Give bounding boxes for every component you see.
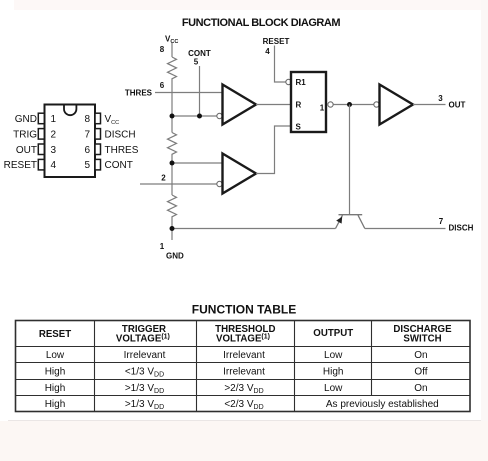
- table row 4: High / >1/3 VDD / <2/3 VDD / As previously established: [45, 399, 439, 411]
- table header row: [39, 324, 452, 345]
- svg-text:On: On: [414, 350, 427, 361]
- latch R1 input bubble: [286, 79, 291, 84]
- svg-text:FUNCTION TABLE: FUNCTION TABLE: [192, 303, 296, 317]
- svg-text:RESET: RESET: [4, 160, 37, 171]
- wire: base drive down to transistor Q1: [349, 105, 351, 215]
- pin 4 (RESET): [38, 159, 44, 170]
- pin numbers inside DIP: [51, 114, 91, 171]
- wire: 1/3 VDD tap to comparator 2 + input: [172, 162, 223, 164]
- pin 3 (OUT): [38, 144, 44, 155]
- svg-text:As previously established: As previously established: [326, 399, 439, 410]
- latch output bubble: [328, 102, 333, 107]
- junction node: CONT on 2/3 tap: [197, 114, 202, 119]
- svg-text:1: 1: [51, 114, 57, 125]
- svg-text:8: 8: [84, 114, 90, 125]
- svg-text:High: High: [323, 367, 344, 378]
- transistor Q1 emitter arrow: [336, 217, 342, 224]
- output buffer U3 (inverter): [380, 85, 414, 125]
- wire: VCC rail x=172: [168, 43, 177, 240]
- IC package U1 (8-pin DIP): [45, 105, 96, 178]
- resistor R middle: [168, 133, 177, 156]
- transistor Q1 (discharge): [336, 215, 365, 229]
- wire: CONT line down to 2/3 node: [199, 66, 201, 116]
- pin 8 (VCC): [95, 113, 101, 124]
- svg-text:3: 3: [51, 145, 57, 156]
- resistor R top (VCC to 2/3 tap): [168, 57, 177, 80]
- table row 1: Low / Irrelevant / Irrelevant / Low / On: [46, 350, 428, 361]
- svg-text:High: High: [45, 399, 66, 410]
- svg-text:1: 1: [320, 103, 325, 112]
- svg-text:DISCH: DISCH: [105, 129, 136, 140]
- svg-text:7: 7: [84, 129, 90, 140]
- wire: RESET line to latch R1 bubble: [275, 46, 286, 83]
- svg-text:5: 5: [194, 58, 199, 67]
- pin 2 (TRIG): [38, 129, 44, 140]
- svg-text:CONT: CONT: [105, 160, 133, 171]
- DIP right pin labels: [105, 114, 139, 171]
- svg-text:2: 2: [161, 174, 166, 183]
- resistor R bottom: [168, 195, 177, 218]
- svg-text:6: 6: [160, 81, 165, 90]
- comparator 2 (trigger): [223, 154, 257, 194]
- DIP left pin labels: [4, 114, 38, 171]
- svg-text:FUNCTIONAL BLOCK DIAGRAM: FUNCTIONAL BLOCK DIAGRAM: [182, 17, 341, 29]
- svg-text:R: R: [296, 101, 302, 110]
- svg-text:High: High: [45, 367, 66, 378]
- svg-text:OUT: OUT: [16, 145, 37, 156]
- svg-text:Low: Low: [324, 350, 343, 361]
- wire: 2/3 VDD tap to comparator 1 - input: [172, 115, 217, 117]
- pin 7 (DISCH): [95, 129, 101, 140]
- junction node: rail / 2/3 tap: [170, 114, 175, 119]
- svg-text:8: 8: [160, 45, 165, 54]
- pin 5 (CONT): [95, 159, 101, 170]
- wire: collector to DISCH pin 7: [365, 228, 446, 230]
- svg-text:4: 4: [265, 47, 270, 56]
- inverting input bubble comparator 2: [217, 181, 222, 186]
- function table grid: [16, 321, 471, 412]
- wire: TRIG line to comparator 2 - input: [140, 183, 217, 185]
- svg-text:6: 6: [84, 145, 90, 156]
- svg-text:RESET: RESET: [39, 329, 71, 340]
- junction node: rail / 1/3 tap: [170, 161, 175, 166]
- svg-text:GND: GND: [15, 114, 37, 125]
- svg-text:5: 5: [84, 160, 90, 171]
- pin 1 (GND): [38, 113, 44, 124]
- svg-text:OUT: OUT: [449, 101, 466, 110]
- wire: buffer output to OUT pin 3: [413, 104, 446, 106]
- svg-text:4: 4: [51, 160, 57, 171]
- table row 2: High / <1/3 VDD / Irrelevant / High / Off: [45, 367, 428, 379]
- comparator 1 (threshold): [223, 85, 257, 125]
- svg-text:2: 2: [51, 129, 57, 140]
- svg-text:TRIG: TRIG: [13, 129, 37, 140]
- svg-text:Irrelevant: Irrelevant: [223, 367, 265, 378]
- svg-text:THRES: THRES: [105, 145, 139, 156]
- latch U2 (SR latch): [291, 72, 326, 132]
- svg-text:On: On: [414, 383, 427, 394]
- pin 6 (THRES): [95, 144, 101, 155]
- svg-text:Irrelevant: Irrelevant: [124, 350, 166, 361]
- svg-text:Low: Low: [324, 383, 343, 394]
- svg-text:OUTPUT: OUTPUT: [313, 328, 353, 339]
- svg-text:S: S: [296, 123, 302, 132]
- junction node: output / transistor base: [347, 102, 352, 107]
- svg-text:High: High: [45, 383, 66, 394]
- table row 3: High / >1/3 VDD / >2/3 VDD / Low / On: [45, 383, 428, 395]
- inverting input bubble comparator 1: [217, 113, 222, 118]
- buffer input bubble: [374, 102, 379, 107]
- svg-text:GND: GND: [166, 252, 184, 261]
- svg-text:R1: R1: [296, 78, 307, 87]
- wire: comparator 1 output to latch R: [256, 104, 291, 106]
- svg-text:DISCH: DISCH: [449, 224, 474, 233]
- svg-text:7: 7: [439, 217, 444, 226]
- svg-text:1: 1: [160, 242, 165, 251]
- svg-text:3: 3: [438, 94, 443, 103]
- svg-text:CONT: CONT: [188, 49, 211, 58]
- svg-text:RESET: RESET: [263, 37, 290, 46]
- junction node: GND rail / emitter: [170, 226, 175, 231]
- wire: comparator 2 output riser to latch S: [256, 126, 291, 174]
- svg-text:Low: Low: [46, 350, 65, 361]
- wire: emitter to GND rail: [172, 228, 336, 230]
- svg-text:Off: Off: [414, 367, 427, 378]
- svg-text:SWITCH: SWITCH: [403, 333, 441, 344]
- svg-text:THRES: THRES: [125, 89, 153, 98]
- wire: latch output to buffer: [334, 104, 374, 106]
- svg-text:Irrelevant: Irrelevant: [223, 350, 265, 361]
- wire: THRES line to comparator 1 + input: [155, 92, 223, 94]
